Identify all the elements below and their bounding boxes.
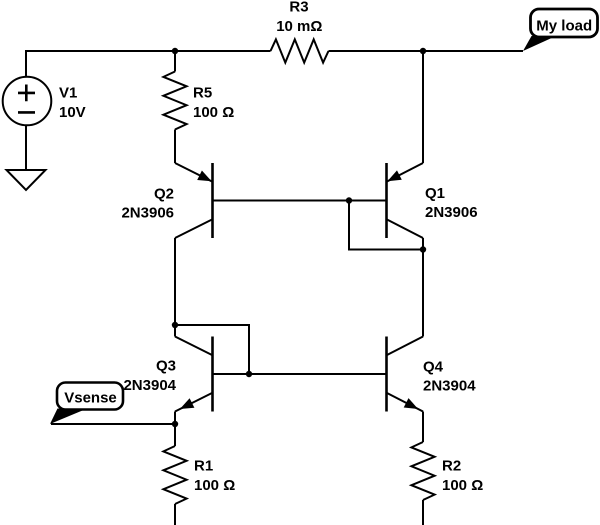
svg-text:Q2: Q2 (154, 186, 174, 203)
svg-text:2N3906: 2N3906 (121, 205, 174, 222)
wire top rail V1 to R3 (26, 51, 271, 77)
wire Q3 base to Q4 base (213, 373, 387, 375)
resistor R1 (174, 424, 176, 446)
wire Q1 base-collector tie (349, 201, 423, 250)
node Q1 base tie (346, 197, 352, 203)
svg-text:2N3904: 2N3904 (123, 377, 176, 394)
Q3 label (123, 358, 176, 395)
svg-text:10 mΩ: 10 mΩ (276, 18, 322, 35)
Q4 label (423, 359, 476, 395)
svg-text:Q4: Q4 (423, 359, 444, 376)
transistor Q4 (387, 337, 424, 412)
wire Q2 base to Q1 base (213, 200, 387, 202)
svg-text:My load: My load (536, 17, 592, 34)
transistor Q3 (175, 337, 213, 412)
Q2 label (121, 186, 174, 222)
wire Vsense (51, 423, 175, 425)
svg-text:Vsense: Vsense (64, 390, 117, 407)
transistor Q2 (175, 163, 213, 238)
voltage source V1 (3, 77, 52, 126)
callout My load (523, 9, 598, 51)
resistor R5 (174, 51, 176, 72)
R2 value label (442, 458, 483, 495)
R5 value label (193, 85, 234, 122)
callout Vsense (50, 383, 123, 425)
node Q3 collector tie (172, 322, 178, 328)
svg-text:10V: 10V (59, 104, 86, 121)
wire V1 to ground (25, 125, 27, 170)
ground (7, 170, 46, 190)
resistor R3 (271, 39, 329, 62)
svg-text:R5: R5 (193, 85, 212, 102)
Q1 label (425, 185, 478, 221)
transistor Q1 (387, 163, 424, 238)
resistor R2 (411, 442, 434, 500)
node top rail / R5 (172, 48, 178, 54)
node Vsense / R1 (172, 421, 178, 427)
svg-text:R1: R1 (194, 458, 213, 475)
svg-text:V1: V1 (59, 85, 77, 102)
wire top rail R3 to My load (329, 50, 524, 52)
R1 value label (194, 458, 235, 495)
wire Q2 collector to Q3 collector (174, 238, 176, 337)
node Q1 collector tie (420, 246, 426, 252)
svg-text:R2: R2 (442, 458, 461, 475)
wire Q1 emitter to top rail (422, 51, 424, 163)
wire Q1 collector to Q4 collector (422, 238, 424, 337)
svg-text:Q1: Q1 (425, 185, 445, 202)
svg-text:2N3906: 2N3906 (425, 204, 478, 221)
svg-text:100 Ω: 100 Ω (442, 477, 483, 494)
svg-text:Q3: Q3 (156, 358, 176, 375)
node Q3 base tie (246, 371, 252, 377)
wire Q3 base-collector tie (175, 325, 249, 374)
svg-text:2N3904: 2N3904 (423, 378, 476, 395)
wire Q3 emitter to R1 node (174, 412, 176, 425)
R3 value label (276, 0, 322, 35)
V1 value label (59, 85, 86, 122)
wire Q4 emitter to R2 (422, 412, 424, 443)
svg-text:100 Ω: 100 Ω (193, 104, 234, 121)
node top rail / Q1 emitter (420, 48, 426, 54)
svg-text:R3: R3 (289, 0, 308, 15)
svg-text:100 Ω: 100 Ω (194, 477, 235, 494)
